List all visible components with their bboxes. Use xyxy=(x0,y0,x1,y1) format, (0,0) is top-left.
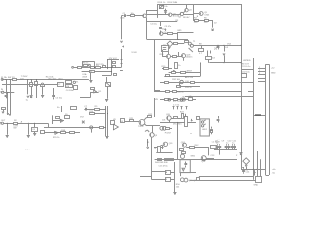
component box x66 xyxy=(66,85,73,88)
wire center bus corner xyxy=(154,90,160,92)
wire q17 down xyxy=(168,58,170,69)
component box x36 xyxy=(35,82,38,86)
svg-text:C4 100n: C4 100n xyxy=(66,90,75,92)
wire blk bot xyxy=(151,179,165,181)
wire to Q8 xyxy=(134,121,139,123)
ground bus c xyxy=(105,137,108,139)
wire r41 bottom xyxy=(156,152,172,154)
tick mark b xyxy=(121,63,123,65)
ground coil xyxy=(105,100,108,102)
pin wire 1 xyxy=(258,68,266,70)
component box tl xyxy=(2,108,6,110)
wire emitter row xyxy=(147,21,178,23)
wire feedback left xyxy=(82,61,84,67)
transistor Q104 xyxy=(185,9,188,12)
component box m1 xyxy=(56,117,60,119)
capacitor C21 xyxy=(185,114,187,117)
plus mark bridge xyxy=(169,47,171,49)
wire coil down xyxy=(107,87,109,99)
svg-text:GND: GND xyxy=(271,72,276,74)
battery box xyxy=(162,46,169,52)
contact box e1 xyxy=(165,99,169,101)
crystal X1 xyxy=(211,127,213,129)
marks right r41 xyxy=(161,147,164,149)
wire q11 left xyxy=(161,145,163,147)
resistor R20b xyxy=(181,72,186,74)
text block mid xyxy=(158,159,162,161)
wire rail2 xyxy=(2,84,57,86)
svg-text:PC817: PC817 xyxy=(165,133,172,135)
junction dots mid xyxy=(106,66,109,69)
ground x28 xyxy=(27,136,30,138)
svg-text:R6 4k7: R6 4k7 xyxy=(183,17,190,19)
wire row t1 xyxy=(84,109,105,111)
ground k1 xyxy=(89,81,92,83)
resistor R107 xyxy=(174,43,178,45)
resistor R200 xyxy=(78,67,82,69)
transistor Q12 xyxy=(182,143,186,147)
component box c8 xyxy=(148,116,152,118)
current source arrow xyxy=(27,96,29,98)
ground bottom center xyxy=(173,193,176,195)
svg-text:12V VCC: 12V VCC xyxy=(109,58,118,60)
svg-text:- . - .: - . - . xyxy=(25,149,30,151)
pin wire 5 xyxy=(258,81,266,83)
transformer T101 xyxy=(188,42,191,45)
svg-text:C2 10u: C2 10u xyxy=(150,24,158,26)
LED 2 xyxy=(201,125,203,127)
resistor R103 xyxy=(131,15,135,17)
box bottom right xyxy=(256,177,262,183)
wire row73 xyxy=(164,76,200,78)
wire x224 lower xyxy=(224,55,226,63)
node plus mark xyxy=(122,46,124,48)
capacitor C101 xyxy=(122,15,124,17)
wire drop x27.9 xyxy=(27,80,29,95)
IC U2 box xyxy=(58,83,64,87)
cap bank C8 xyxy=(217,144,219,145)
svg-text:LED1: LED1 xyxy=(202,129,208,131)
wire vertical left input lower xyxy=(121,49,123,67)
bus pair left xyxy=(107,60,109,70)
wire x178 drop xyxy=(178,52,180,57)
wire drop x179 xyxy=(177,122,179,159)
wire Q101 collector xyxy=(145,13,148,16)
wire xfmr right xyxy=(193,45,241,47)
junction rails xyxy=(178,81,181,84)
resistor R41 vert xyxy=(158,147,161,153)
wire J2 row xyxy=(4,123,49,125)
box left bus xyxy=(103,66,106,68)
wire right bus vertical xyxy=(241,4,243,152)
wire x7 gnd xyxy=(7,123,9,135)
wire q8 right xyxy=(145,124,147,126)
ground x42 xyxy=(41,96,44,98)
zener ZD1 xyxy=(241,152,243,153)
diode x31 xyxy=(30,96,32,98)
wire r23 link xyxy=(171,118,174,120)
transistor Q10 xyxy=(180,80,183,83)
capacitor C104 xyxy=(218,44,220,47)
connector J1 xyxy=(2,91,4,93)
resistor R1 xyxy=(13,79,17,81)
wire vert junction xyxy=(177,32,179,39)
wire reg box right xyxy=(248,91,253,93)
wire q8 row xyxy=(147,125,161,127)
wire k1 row xyxy=(82,71,112,73)
wire aux stub xyxy=(208,60,210,63)
wire top supply rail xyxy=(157,4,241,6)
resistor R23 xyxy=(174,117,178,119)
resistor R17 xyxy=(173,56,177,58)
marks ic right xyxy=(191,119,193,122)
wire rect top xyxy=(178,32,194,34)
resistor R10 xyxy=(90,113,95,115)
wire q18 link xyxy=(176,56,181,58)
svg-text:LM7805: LM7805 xyxy=(243,60,251,62)
node arrow input xyxy=(121,41,123,43)
wire mid rail xyxy=(147,39,188,41)
ground x7 xyxy=(6,136,9,138)
resistor R21 xyxy=(130,120,134,122)
wire row3 bl xyxy=(40,132,80,134)
resistor R20a xyxy=(172,72,176,74)
wire drop x209 xyxy=(208,147,210,155)
svg-text:12V: 12V xyxy=(20,78,24,80)
connector strip right xyxy=(269,64,271,175)
wire q14 right xyxy=(206,158,214,160)
wire strip mid tap xyxy=(253,115,265,117)
wire q18 down xyxy=(183,58,185,61)
wire bottom rail 2 xyxy=(190,180,258,182)
wire base row xyxy=(147,14,169,16)
connector strip top xyxy=(266,64,270,66)
transistor Q101 xyxy=(143,14,147,18)
wire left rail xyxy=(2,79,89,81)
pin wire 3 xyxy=(258,74,266,76)
diode D102 symbol xyxy=(212,29,214,31)
resistor R202 xyxy=(91,67,95,69)
wire row2 bl xyxy=(44,127,106,129)
connector AC xyxy=(1,78,3,80)
wire opto link xyxy=(160,128,162,130)
transistor Q7 xyxy=(90,126,93,129)
capacitor C12 xyxy=(219,147,221,155)
wire q17 up xyxy=(168,52,170,55)
cap in box xyxy=(185,162,187,164)
wire k1 gnd xyxy=(90,73,92,80)
top ground sym xyxy=(182,168,185,171)
svg-text:SW: SW xyxy=(8,77,11,79)
resistor R9 xyxy=(95,109,100,111)
wire c6 xyxy=(34,123,36,127)
wire heater row xyxy=(160,122,196,124)
transistor Q102 xyxy=(169,13,172,16)
wire rail E xyxy=(160,99,196,101)
wire comp out xyxy=(170,172,175,174)
wire left bottom elbow xyxy=(80,97,91,99)
transistor Q18 xyxy=(182,54,186,58)
resistor R104 xyxy=(195,20,199,22)
resistor R18 vert xyxy=(175,63,178,69)
svg-text:R44 R45 R46: R44 R45 R46 xyxy=(155,162,168,164)
transistor Q103 xyxy=(180,12,183,15)
diode D1 cluster xyxy=(91,88,95,90)
marks above Q106 xyxy=(165,29,167,31)
svg-text:GND: GND xyxy=(254,185,259,187)
wire rail B xyxy=(154,91,241,93)
svg-text:R14 10k: R14 10k xyxy=(46,77,55,79)
resistor R203 xyxy=(96,67,101,69)
marks right mid xyxy=(254,170,256,175)
trimmer VR1 xyxy=(160,6,164,9)
bridge rectifier BR101 xyxy=(167,41,173,47)
junction dot x191 xyxy=(190,132,193,135)
marks below loop xyxy=(242,167,244,169)
wire bottom rail 1 xyxy=(199,176,253,178)
wire coil up xyxy=(106,77,108,82)
component C202 xyxy=(113,66,116,68)
transistor Q105 xyxy=(199,12,203,16)
wire J1 xyxy=(4,92,14,94)
svg-text:LM: LM xyxy=(66,86,69,88)
svg-text:R35 1k: R35 1k xyxy=(177,92,185,94)
relay coil box xyxy=(106,83,111,87)
wire box bottom out xyxy=(180,173,182,177)
resistor R25 xyxy=(166,128,170,130)
wire drop x31 xyxy=(31,80,33,96)
component box aux xyxy=(206,57,212,60)
wire rail A xyxy=(160,82,253,84)
svg-text:C31 0.1u: C31 0.1u xyxy=(242,66,251,68)
transistor Q9 xyxy=(150,133,154,137)
svg-text:R32 100: R32 100 xyxy=(172,79,181,81)
wire vertical q5 feed xyxy=(193,4,195,20)
svg-text:R17 22k: R17 22k xyxy=(96,64,105,66)
wire elbow left xyxy=(120,70,123,72)
resistor R31 xyxy=(165,82,169,84)
svg-text:C945: C945 xyxy=(204,14,210,16)
wire Q105 base xyxy=(193,13,199,15)
component box e3 xyxy=(189,98,193,101)
transistor Q13 xyxy=(180,154,184,158)
box railB 2 xyxy=(173,91,177,93)
comp box B xyxy=(166,178,171,182)
wire blk top xyxy=(151,171,165,173)
wire q17 base xyxy=(162,56,166,58)
wire into blk xyxy=(140,176,151,178)
wire q17 right xyxy=(171,56,173,58)
wire bridge right xyxy=(172,43,175,45)
vertical x61 xyxy=(61,106,63,112)
wire q12 right xyxy=(186,147,209,149)
svg-text:R12 4k7: R12 4k7 xyxy=(49,79,58,81)
svg-text:F1 2A: F1 2A xyxy=(1,76,7,79)
regulator box xyxy=(242,74,247,78)
cap bank C10 xyxy=(232,144,234,145)
wire feedback top xyxy=(82,61,94,63)
opto pair xyxy=(180,98,183,101)
wire out row xyxy=(241,169,266,171)
resistor R106 xyxy=(168,33,173,35)
comp box C xyxy=(197,178,200,181)
arrow into node xyxy=(147,139,149,147)
wire row67 xyxy=(162,68,172,70)
pin stub 3 xyxy=(181,107,183,110)
op-amp U3 xyxy=(113,124,118,130)
wire Q103 right xyxy=(184,14,194,16)
diode m1 xyxy=(60,119,63,122)
svg-text:5W: 5W xyxy=(13,128,16,130)
wire left drop from top rail xyxy=(157,4,159,18)
component box x74 xyxy=(74,86,78,90)
svg-text:R15 1k: R15 1k xyxy=(53,137,61,139)
wire vert 257b xyxy=(257,151,259,177)
wire emitter bottom row xyxy=(193,20,210,22)
transistor Q11 xyxy=(163,142,167,146)
pin stub 4 xyxy=(186,107,188,110)
wire reg vert xyxy=(253,58,255,180)
svg-text:Vref: Vref xyxy=(80,116,84,119)
svg-text:IC2 TL431: IC2 TL431 xyxy=(173,101,184,103)
capacitor C5 xyxy=(52,96,55,97)
wire x53 drop xyxy=(53,88,55,95)
mirror Q16 xyxy=(184,178,188,182)
fuse F101 xyxy=(185,41,189,43)
marks left mid xyxy=(82,121,85,124)
wire bend bl xyxy=(48,123,50,127)
wire cap bank bot xyxy=(214,149,237,151)
symbol end x8 xyxy=(7,113,9,115)
wire drop x7.9 xyxy=(7,92,9,114)
resistor R105 xyxy=(205,20,209,22)
diode D6 xyxy=(55,131,58,134)
circle x74 xyxy=(73,81,75,83)
diode sym x224 xyxy=(223,53,225,55)
ground c6 xyxy=(33,134,36,136)
wire rail D xyxy=(185,96,253,98)
wire x28 gnd xyxy=(28,123,30,135)
symbol end x10 xyxy=(9,114,11,116)
transistor Q20 xyxy=(167,116,171,120)
wire reg mid xyxy=(241,69,253,71)
wire q9 down xyxy=(151,137,153,152)
opto pair U8 xyxy=(160,126,164,130)
pin wire 2 xyxy=(258,71,266,73)
svg-text:A1015: A1015 xyxy=(186,56,193,59)
bus pair c xyxy=(105,106,107,136)
junction dots d1 xyxy=(89,91,92,94)
wire q102 q103 xyxy=(172,14,180,16)
transistor Q17 xyxy=(167,54,171,58)
LED box outline xyxy=(200,119,209,136)
transistor Q8 power xyxy=(139,120,145,126)
transistor Q14 xyxy=(201,156,206,161)
box railB 1 xyxy=(166,91,170,93)
svg-text:T 250V: T 250V xyxy=(21,76,28,78)
component box x31 xyxy=(30,83,33,87)
comp box A xyxy=(166,171,171,175)
capacitor C7 xyxy=(86,108,87,111)
component box e2 xyxy=(174,99,178,101)
resistor R2 xyxy=(14,123,18,125)
resistor R20c xyxy=(166,75,170,77)
wire drop x36.4 xyxy=(36,80,38,99)
resistor R24 vert xyxy=(182,114,184,119)
wire r41 stub xyxy=(154,147,157,149)
pin wire 4 xyxy=(258,78,266,80)
svg-text:C3 47u: C3 47u xyxy=(165,26,173,28)
cluster left small xyxy=(41,85,45,87)
component x192 xyxy=(191,82,195,84)
wire x42 gnd xyxy=(42,87,44,95)
wire m cluster xyxy=(52,120,64,122)
stub b xyxy=(210,51,212,54)
resistor R33 xyxy=(177,86,181,88)
capacitor C14 xyxy=(243,169,245,170)
relay K1 box xyxy=(90,71,95,73)
wire rail C xyxy=(176,86,200,88)
wire bridge to xfmr xyxy=(177,43,184,45)
wire short low xyxy=(102,75,112,77)
capacitor C22 xyxy=(218,116,220,119)
wire Q101 emitter xyxy=(145,16,148,19)
opto U4 box xyxy=(121,119,125,123)
svg-text:L1 10uH: L1 10uH xyxy=(212,141,220,143)
mirror Q15 xyxy=(180,178,184,182)
transistor Q201 xyxy=(88,64,90,66)
wire zener link xyxy=(241,158,243,169)
svg-text:OUT: OUT xyxy=(1,120,6,122)
svg-text:TIP41: TIP41 xyxy=(138,126,144,128)
wire main mid xyxy=(74,67,122,69)
component box m2 xyxy=(65,116,70,119)
box pair 1 xyxy=(180,149,184,151)
component box br1 xyxy=(211,146,217,149)
wire center drop xyxy=(174,162,176,192)
component box r1 xyxy=(111,121,115,125)
wire x162 drop xyxy=(162,50,164,56)
IC box vert xyxy=(185,117,188,127)
resistor R6 xyxy=(61,132,66,134)
svg-text:C15 470u: C15 470u xyxy=(159,165,169,167)
connector strip left xyxy=(265,64,267,175)
wire q106 right xyxy=(163,33,168,35)
connector mid in xyxy=(72,66,74,68)
svg-text:LM317: LM317 xyxy=(186,71,193,73)
resistor R11 xyxy=(100,127,104,129)
stub a xyxy=(207,51,209,57)
wire xfmr tap xyxy=(189,48,193,52)
wire bl drop xyxy=(151,140,153,179)
svg-text:12.6V: 12.6V xyxy=(131,52,137,54)
component box x65 xyxy=(66,81,72,84)
wire vertical left input xyxy=(121,16,123,40)
wire vert 260 xyxy=(260,159,262,176)
box bl1 xyxy=(41,131,45,134)
wire bus top xyxy=(108,59,120,61)
capacitor C102 xyxy=(160,22,162,26)
wire aux rail xyxy=(209,62,241,64)
ground block xyxy=(172,72,175,74)
wire drop x10 xyxy=(10,80,12,115)
component box x197 xyxy=(197,117,200,120)
wire Q103-Q104 xyxy=(183,11,185,13)
wire Q104 collector xyxy=(186,4,188,9)
svg-text:C5 10u: C5 10u xyxy=(55,97,63,99)
transistor Q106 xyxy=(160,32,163,35)
tick mark a xyxy=(121,59,123,61)
